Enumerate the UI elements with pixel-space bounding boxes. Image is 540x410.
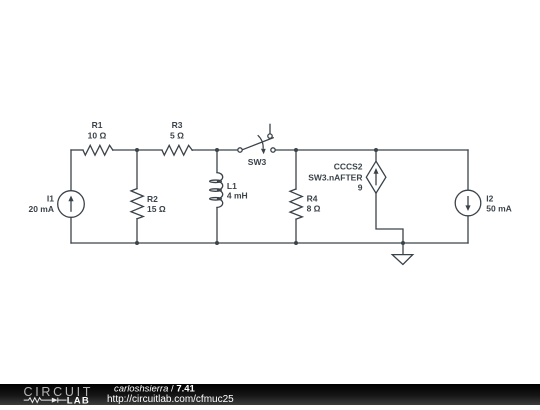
svg-text:R3: R3 [172, 120, 183, 130]
svg-text:CCCS2: CCCS2 [334, 161, 363, 171]
svg-text:I2: I2 [486, 193, 493, 203]
wire R3 to SW3 [192, 149, 238, 151]
node ground [401, 241, 405, 245]
node L1 bottom [215, 241, 219, 245]
wire R2 top lead [136, 150, 138, 189]
wire right side lower [467, 216, 469, 243]
wire right side upper [467, 150, 469, 190]
svg-text:10 Ω: 10 Ω [88, 130, 107, 140]
current source I1 [58, 191, 85, 218]
svg-text:SW3.nAFTER: SW3.nAFTER [308, 173, 362, 183]
switch SW3 [238, 124, 275, 155]
wire left side upper [70, 150, 72, 191]
svg-text:50 mA: 50 mA [486, 204, 512, 214]
node R2 top [135, 148, 139, 152]
node L1 top [215, 148, 219, 152]
resistor R2 [131, 189, 143, 219]
wire R4 bottom lead [295, 219, 297, 243]
wire CCCS2 top lead [375, 150, 377, 161]
svg-text:15 Ω: 15 Ω [147, 204, 166, 214]
svg-text:9: 9 [358, 182, 363, 192]
svg-text:SW3: SW3 [248, 157, 267, 167]
svg-text:I1: I1 [47, 194, 54, 204]
svg-text:R4: R4 [307, 193, 318, 203]
wire R4 top lead [295, 150, 297, 189]
wire left side lower [70, 217, 72, 243]
node R4 top [294, 148, 298, 152]
wire R1 to R3 [113, 149, 162, 151]
dependent source CCCS2 [366, 161, 386, 193]
node R2 bottom [135, 241, 139, 245]
labels [28, 120, 511, 214]
wire SW3 to right corner [275, 149, 468, 151]
wire CCCS2 bottom leads [376, 193, 403, 243]
svg-text:5 Ω: 5 Ω [170, 130, 184, 140]
wire L1 top lead [216, 150, 218, 173]
svg-text:20 mA: 20 mA [28, 204, 54, 214]
svg-text:LAB: LAB [67, 395, 90, 405]
ground stub [402, 243, 404, 255]
wire R2 bottom lead [136, 219, 138, 243]
node R4 bottom [294, 241, 298, 245]
svg-text:8 Ω: 8 Ω [307, 204, 321, 214]
inductor L1 [217, 173, 223, 208]
ground [392, 255, 413, 265]
wire top-left lead [71, 149, 83, 151]
resistor R3 [162, 145, 192, 155]
svg-text:L1: L1 [227, 181, 237, 191]
wire bottom [71, 242, 468, 244]
svg-text:http://circuitlab.com/cfmuc25: http://circuitlab.com/cfmuc25 [107, 394, 234, 405]
wire L1 bottom lead [216, 208, 218, 244]
logo schematic line [24, 398, 67, 403]
resistor R4 [290, 189, 302, 219]
resistor R1 [83, 145, 113, 155]
junction dots [135, 148, 405, 245]
svg-text:R1: R1 [92, 120, 103, 130]
node CCCS2 top [374, 148, 378, 152]
svg-text:4 mH: 4 mH [227, 191, 248, 201]
current source I2 [455, 190, 481, 216]
svg-text:R2: R2 [147, 194, 158, 204]
